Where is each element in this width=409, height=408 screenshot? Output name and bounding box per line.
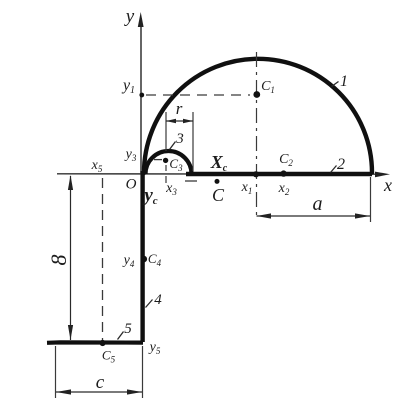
point x1 <box>253 171 259 177</box>
svg-text:y1: y1 <box>121 77 135 96</box>
semicircle 3 (small arc) <box>146 151 192 174</box>
y axis <box>138 12 144 173</box>
svg-text:5: 5 <box>124 321 132 337</box>
dashed line y1 level <box>146 94 250 96</box>
b dimension line with arrows <box>68 175 73 340</box>
svg-text:C4: C4 <box>148 251 162 268</box>
svg-text:Xc: Xc <box>210 152 228 174</box>
svg-text:r: r <box>176 99 183 118</box>
dashed line x5 <box>102 178 104 340</box>
svg-text:y5: y5 <box>148 340 161 356</box>
svg-text:O: O <box>126 177 137 193</box>
x axis <box>57 172 390 178</box>
point C4 <box>141 256 148 263</box>
svg-text:c: c <box>96 372 105 393</box>
svg-text:x2: x2 <box>278 181 290 197</box>
c dimension extension lines <box>56 346 143 398</box>
svg-text:x: x <box>383 175 392 195</box>
leader for label 2 <box>331 166 337 173</box>
r dimension line with arrows <box>166 119 193 123</box>
leader for label 5 <box>118 332 124 340</box>
dash left of centroid C <box>185 180 197 182</box>
bar 5 (bottom horizontal) <box>47 340 143 345</box>
semicircle 1 (big arc) <box>144 59 372 173</box>
svg-text:3: 3 <box>175 131 184 147</box>
bar 4 (vertical) <box>140 171 144 342</box>
r dimension extension lines <box>166 112 193 183</box>
leader for label 1 <box>332 82 339 87</box>
leader for label 3 <box>170 142 176 150</box>
svg-text:a: a <box>313 193 323 215</box>
svg-text:x3: x3 <box>165 181 177 197</box>
svg-text:y3: y3 <box>124 147 137 163</box>
svg-text:4: 4 <box>154 292 162 308</box>
point C2/x2 <box>280 170 286 176</box>
svg-text:C2: C2 <box>279 152 293 168</box>
svg-text:yc: yc <box>142 185 157 207</box>
point C (centroid) <box>215 179 220 184</box>
a dimension extension line <box>370 177 372 222</box>
svg-text:y4: y4 <box>122 253 135 269</box>
dash left of C3 <box>154 159 162 161</box>
svg-text:8: 8 <box>46 255 71 266</box>
svg-text:C: C <box>212 185 225 205</box>
svg-text:C5: C5 <box>102 348 116 365</box>
svg-text:2: 2 <box>337 156 345 173</box>
svg-text:x5: x5 <box>91 158 103 174</box>
a dimension line with arrows <box>257 213 371 218</box>
leader for label 4 <box>146 300 153 308</box>
bar 2 (thick segment on x axis) <box>186 172 372 177</box>
svg-text:x1: x1 <box>241 180 253 196</box>
point C5 <box>100 340 106 346</box>
point y1 <box>139 93 144 98</box>
svg-text:C1: C1 <box>261 79 275 95</box>
svg-text:C3: C3 <box>169 156 183 173</box>
c dimension line with arrows <box>56 389 142 394</box>
point C3 <box>163 158 168 163</box>
centerline x1 (dash-dot) <box>256 52 258 218</box>
point C1 <box>253 91 260 98</box>
svg-text:y: y <box>124 6 135 27</box>
svg-text:1: 1 <box>340 73 348 90</box>
